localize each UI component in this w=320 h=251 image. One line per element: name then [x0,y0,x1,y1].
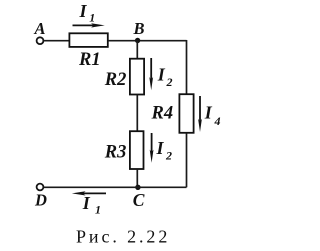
label I1 top [79,1,96,25]
svg-text:R2: R2 [104,70,127,90]
svg-text:Рис. 2.22: Рис. 2.22 [76,227,170,247]
resistor R1 [69,33,107,47]
current arrow I4 [198,96,202,132]
svg-text:1: 1 [95,202,101,216]
resistor R2 [130,59,144,95]
svg-text:I: I [156,138,165,158]
resistor R4 [179,94,193,133]
svg-text:A: A [34,19,46,38]
svg-text:2: 2 [165,149,172,163]
label I4 [204,102,221,128]
label I2 upper [157,64,173,89]
right branch wire top (corner to R4) [186,40,188,95]
wire R2 to R3 [136,95,138,132]
node B [135,38,140,43]
svg-text:C: C [133,190,145,210]
svg-text:4: 4 [214,114,221,128]
terminal A [37,37,44,44]
terminal D [37,184,44,191]
current arrow I2 lower [150,133,154,163]
resistor R3 [130,131,144,169]
label I2 lower [156,138,173,162]
svg-text:R4: R4 [151,103,174,123]
wire R3 to C [136,169,138,187]
wire R1 to B and to right corner [108,40,187,42]
svg-text:I: I [79,1,88,21]
svg-text:I: I [82,193,91,213]
svg-text:2: 2 [166,75,173,89]
current arrow I2 upper [149,58,153,90]
svg-text:D: D [34,191,47,210]
bottom wire C to D and corner [44,186,187,188]
wire A to R1 [44,40,69,42]
current arrow I1 top [73,23,105,27]
svg-text:I: I [204,102,213,122]
svg-text:B: B [133,19,145,38]
label I1 bottom [82,193,101,216]
wire B to R2 [136,41,138,60]
svg-text:R3: R3 [104,142,127,162]
svg-text:I: I [157,64,166,84]
right branch wire bottom (R4 to bottom wire) [186,133,188,188]
svg-text:1: 1 [89,10,95,24]
current arrow I1 bottom [72,191,106,195]
node C [135,185,140,190]
svg-text:R1: R1 [78,50,101,70]
